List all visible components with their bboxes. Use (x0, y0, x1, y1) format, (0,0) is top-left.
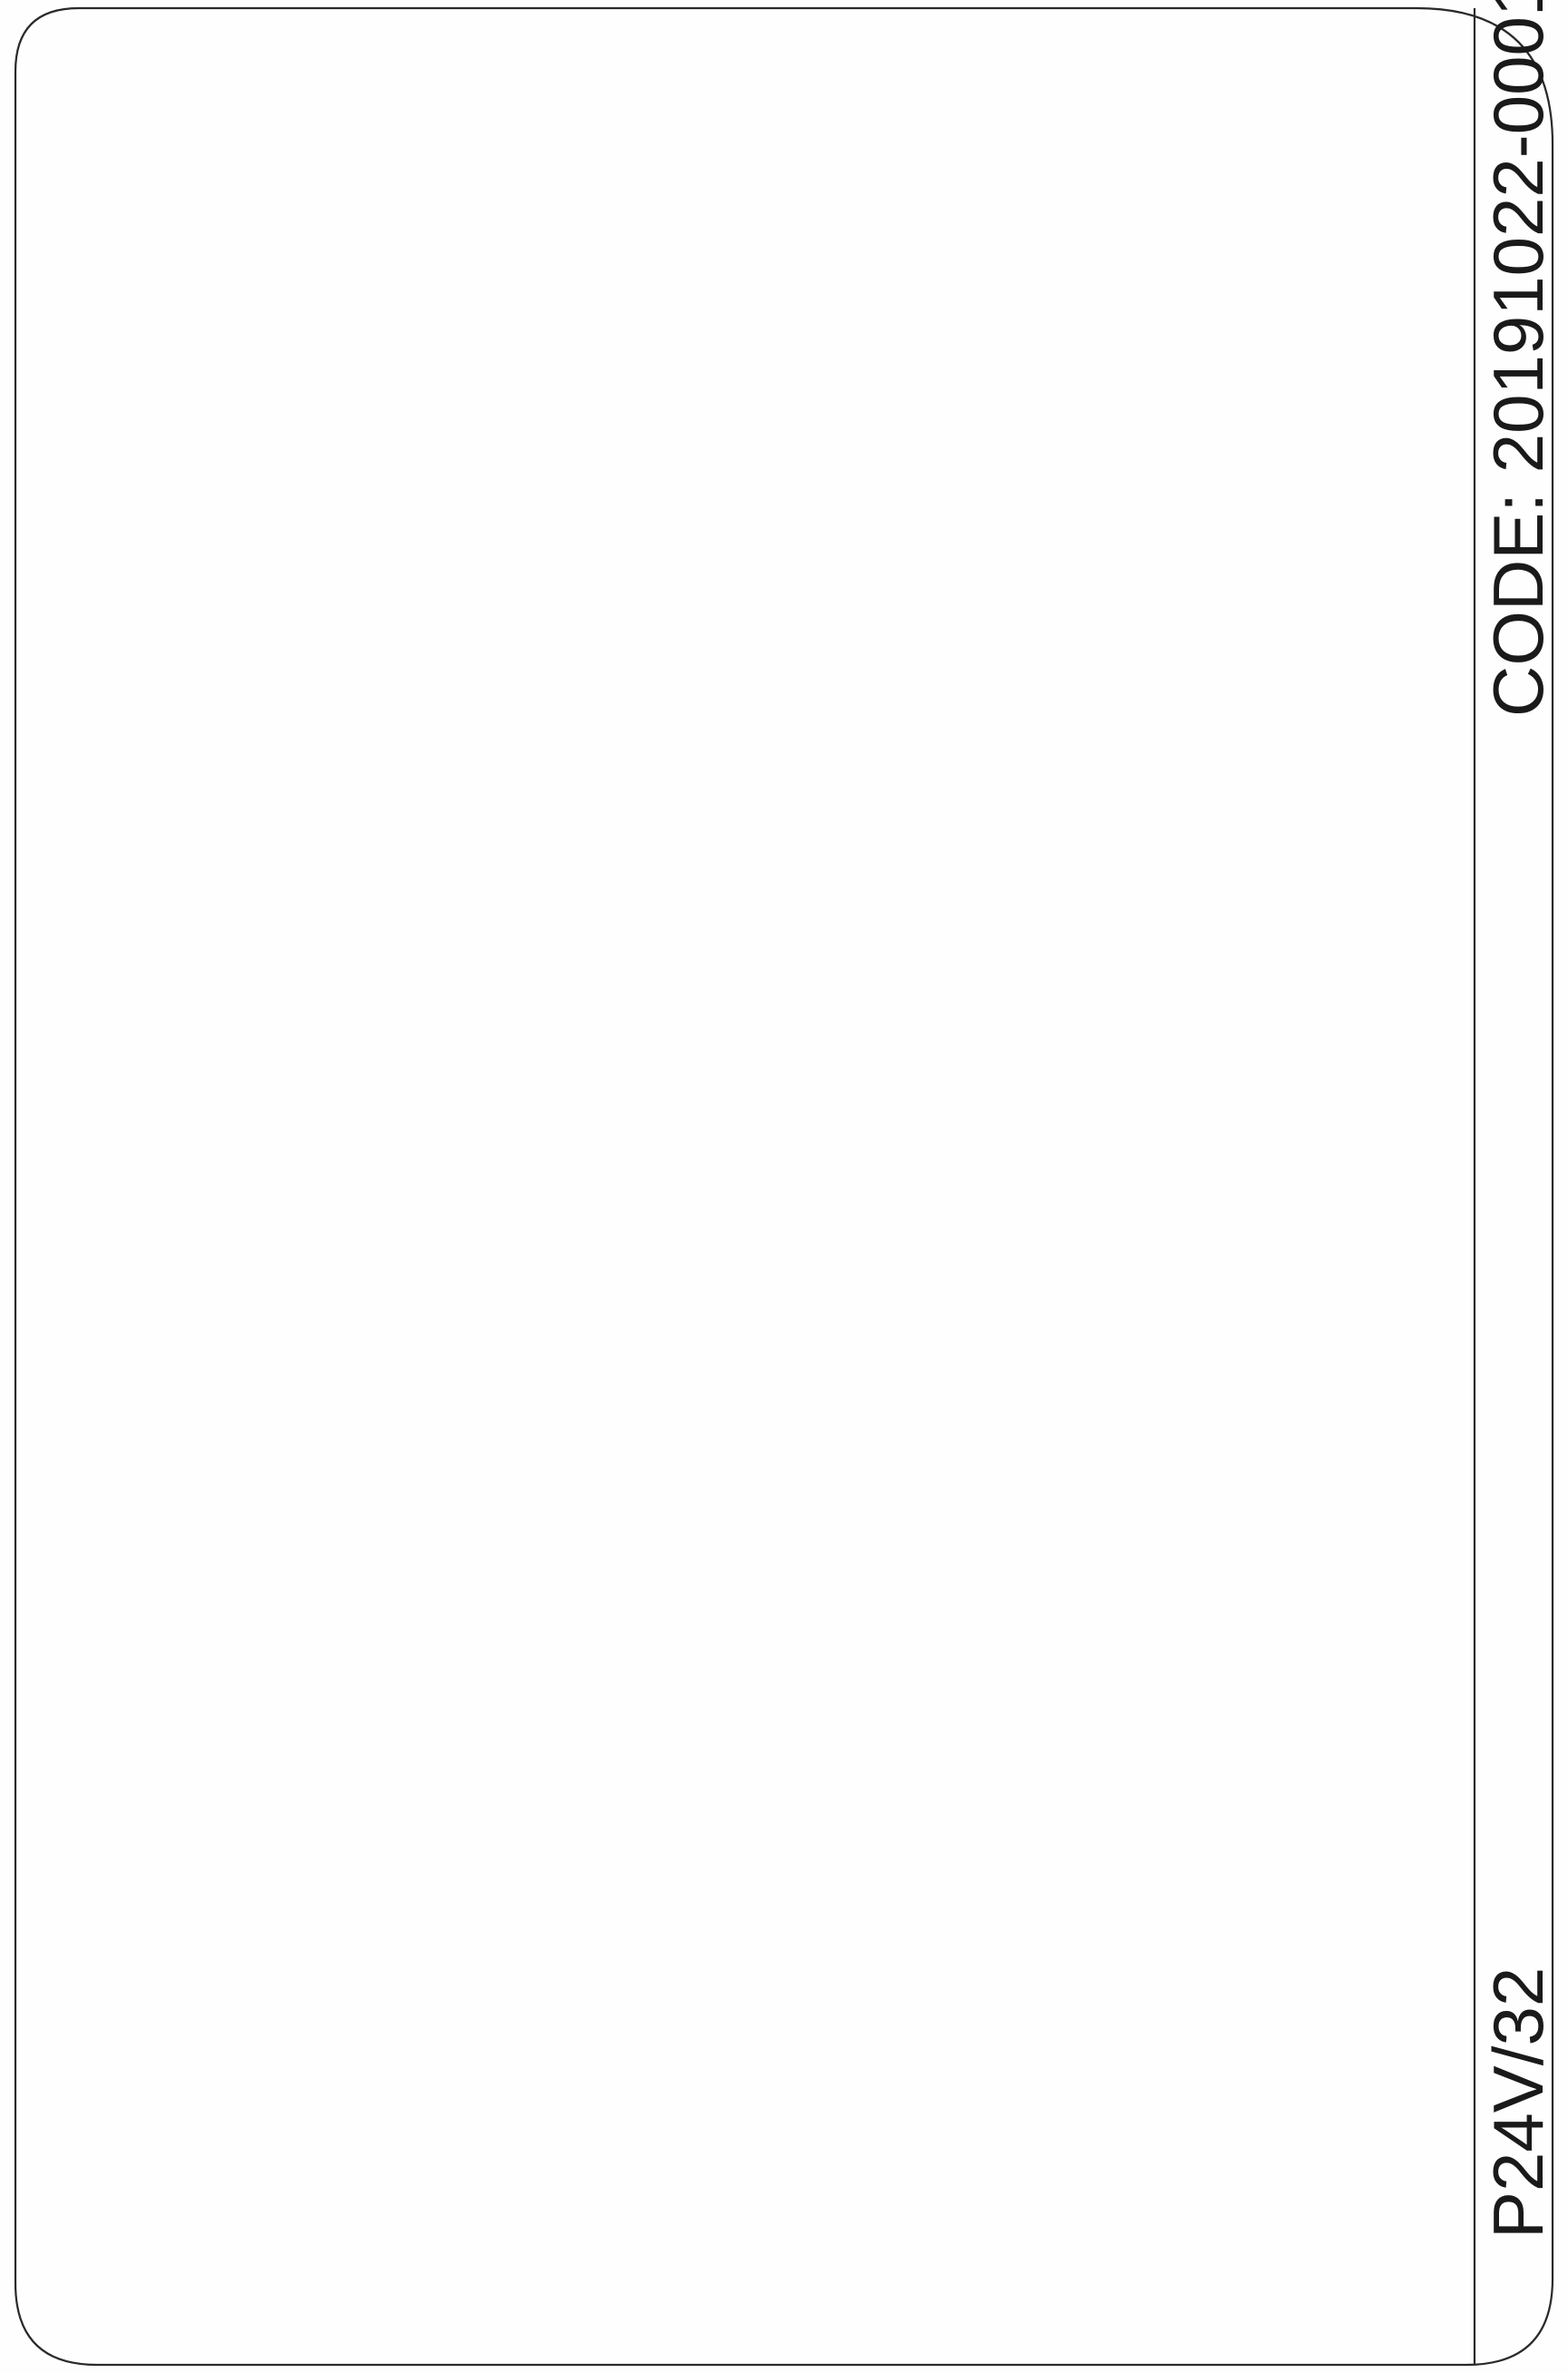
svg-text:CODE: 20191022-0001: CODE: 20191022-0001 (1478, 0, 1558, 717)
title divider (1474, 8, 1475, 2365)
svg-text:P24V/32: P24V/32 (1478, 1967, 1558, 2239)
